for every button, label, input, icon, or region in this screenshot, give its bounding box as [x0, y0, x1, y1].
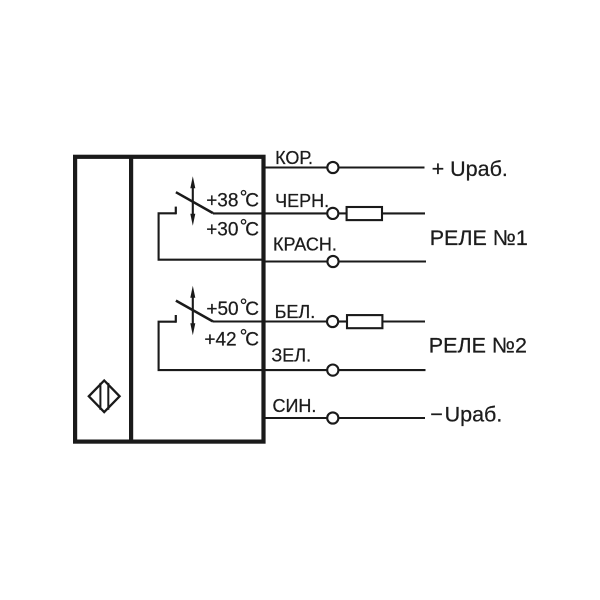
wire BEL right segment: [382, 320, 425, 322]
load resistor R2: [347, 315, 382, 328]
wire SIN right segment: [338, 417, 425, 419]
svg-text:РЕЛЕ №1: РЕЛЕ №1: [430, 226, 528, 250]
terminal circle ZEL: [327, 365, 338, 376]
wire KRASN right segment: [339, 260, 426, 262]
S1 bracket wire to red lead: [159, 213, 264, 259]
svg-text:+38°C: +38°C: [206, 187, 259, 211]
S1 actuation arrow shaft: [192, 186, 194, 217]
wire KRASN (red): [264, 260, 328, 262]
svg-text:КОР.: КОР.: [275, 148, 313, 168]
terminal circle SIN: [327, 412, 338, 423]
terminal circle CHERN: [327, 208, 338, 219]
svg-text:+30°C: +30°C: [206, 216, 259, 240]
S2 arrow head down: [190, 323, 195, 335]
S2 arrow head up: [190, 286, 195, 298]
S1 arrow head up: [190, 176, 195, 188]
sensor body divider: [129, 157, 133, 442]
terminal circle BEL: [327, 316, 338, 327]
wire KOR (brown): [264, 166, 328, 168]
thermal switch S1 blade: [176, 192, 213, 213]
wire CHERN to resistor: [338, 212, 346, 214]
svg-text:КРАСН.: КРАСН.: [273, 234, 337, 254]
load resistor R1: [347, 207, 382, 220]
wire ZEL right segment: [338, 369, 425, 371]
S2 fixed contact tick: [175, 315, 177, 323]
thermal switch S2 blade: [176, 301, 213, 322]
diamond inner line right: [107, 383, 109, 410]
wire BEL to resistor: [338, 320, 347, 322]
terminal circle KRASN: [327, 256, 338, 267]
svg-text:СИН.: СИН.: [273, 396, 317, 416]
svg-text:+ Uраб.: + Uраб.: [432, 157, 508, 181]
sensor body outer box: [75, 157, 263, 442]
svg-text:БЕЛ.: БЕЛ.: [275, 302, 316, 322]
proximity sensor diamond symbol: [89, 381, 120, 413]
wire ZEL (green): [264, 369, 328, 371]
S2 actuation arrow shaft: [192, 296, 194, 327]
wire SIN (blue): [264, 417, 328, 419]
terminal circle KOR: [327, 162, 338, 173]
svg-text:ЗЕЛ.: ЗЕЛ.: [271, 346, 311, 366]
svg-text:ЧЕРН.: ЧЕРН.: [275, 191, 329, 211]
wire KOR right segment: [339, 166, 425, 168]
svg-text:РЕЛЕ №2: РЕЛЕ №2: [429, 334, 527, 358]
svg-text:+42°C: +42°C: [204, 326, 259, 350]
svg-text:+50°C: +50°C: [206, 296, 259, 320]
S1 fixed contact tick: [175, 207, 177, 215]
S2 bracket wire to green lead: [159, 322, 264, 370]
wire BEL (white): [213, 320, 327, 322]
wire CHERN (black): [213, 212, 327, 214]
wire CHERN right segment: [382, 212, 425, 214]
S1 arrow head down: [190, 214, 195, 226]
svg-text:−Uраб.: −Uраб.: [430, 402, 502, 426]
diamond inner line left: [99, 383, 101, 410]
